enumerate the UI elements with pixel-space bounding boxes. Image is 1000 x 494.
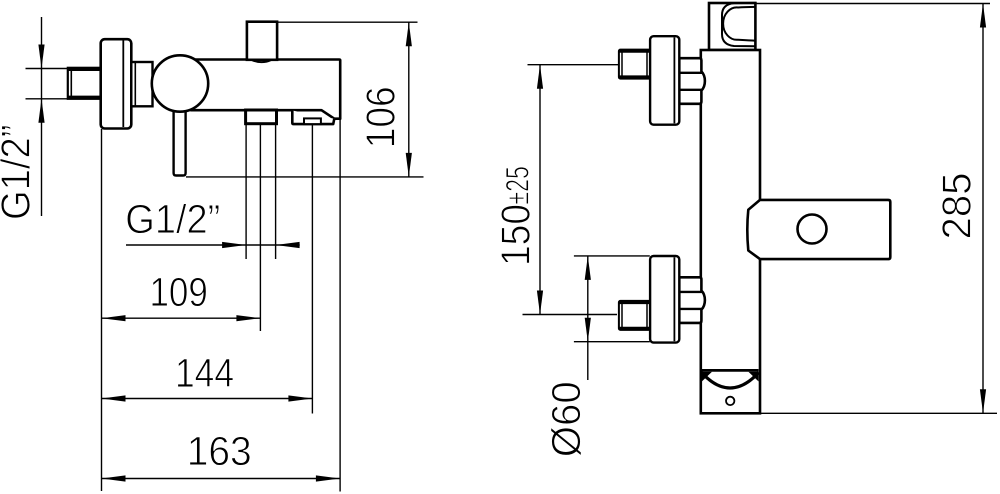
svg-text:285: 285 — [934, 172, 980, 239]
svg-text:150: 150 — [493, 204, 539, 266]
svg-text:±25: ±25 — [500, 166, 536, 205]
svg-text:163: 163 — [187, 428, 252, 474]
svg-text:109: 109 — [149, 269, 208, 315]
svg-text:106: 106 — [358, 86, 404, 148]
svg-text:G1/2”: G1/2” — [0, 125, 38, 221]
svg-text:G1/2”: G1/2” — [125, 196, 220, 242]
svg-text:144: 144 — [175, 350, 234, 396]
svg-text:Ø60: Ø60 — [543, 381, 589, 457]
